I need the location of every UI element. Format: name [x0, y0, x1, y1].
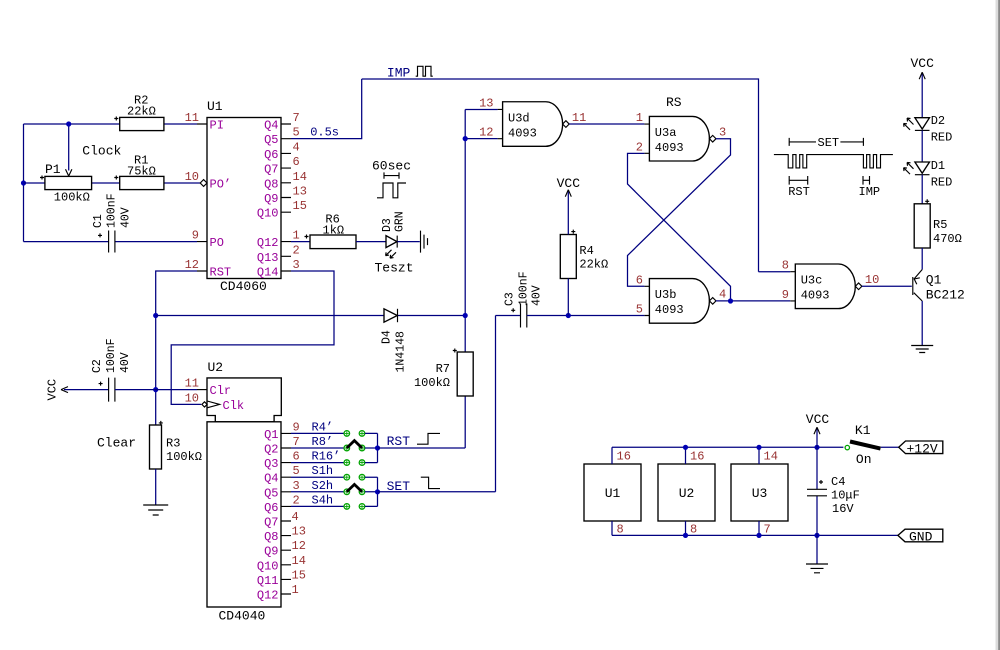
- svg-text:10: 10: [185, 391, 199, 405]
- wire R6 to D3: [356, 241, 386, 243]
- svg-text:U2: U2: [679, 486, 695, 501]
- svg-text:4093: 4093: [508, 127, 537, 141]
- svg-text:RST: RST: [387, 434, 411, 449]
- svg-text:2: 2: [293, 493, 300, 507]
- wire C1 row: [24, 241, 198, 243]
- IC U2 CD4040: [185, 360, 306, 624]
- svg-text:9: 9: [192, 229, 199, 243]
- wire RST to R7 bottom: [378, 447, 466, 449]
- wire left vertical bus: [23, 124, 25, 242]
- svg-text:Q12: Q12: [257, 236, 279, 250]
- jumper pads left column: [344, 431, 350, 510]
- svg-text:R16’: R16’: [312, 450, 341, 464]
- svg-text:12: 12: [479, 126, 493, 140]
- wire node vertical bus: [464, 109, 466, 448]
- svg-text:8: 8: [782, 259, 789, 273]
- resistor R4: [560, 230, 608, 279]
- svg-text:6: 6: [293, 450, 300, 464]
- glyph IMP pulses: [416, 66, 433, 76]
- svg-text:14: 14: [293, 170, 307, 184]
- svg-text:D1: D1: [931, 159, 945, 173]
- svg-text:U3d: U3d: [508, 112, 530, 126]
- capacitor C2: [91, 338, 132, 401]
- IC power U1: [584, 464, 641, 521]
- switch K1: [845, 423, 880, 467]
- node junctions top rail: [683, 445, 688, 450]
- capacitor C3: [504, 271, 544, 327]
- svg-text:15: 15: [293, 199, 307, 213]
- svg-text:2: 2: [636, 140, 643, 154]
- svg-text:C4: C4: [831, 475, 845, 489]
- svg-text:BC212: BC212: [926, 288, 965, 303]
- svg-text:U2: U2: [208, 360, 224, 375]
- wire top row to R2: [24, 123, 120, 125]
- svg-text:VCC: VCC: [46, 379, 60, 401]
- svg-text:1: 1: [292, 583, 299, 597]
- ground power: [806, 564, 828, 573]
- wire power stubs top: [612, 447, 759, 464]
- svg-text:Clr: Clr: [210, 384, 232, 398]
- node junction Clr row: [153, 387, 158, 392]
- wire Q5 output 0.5s: [291, 79, 362, 139]
- svg-text:0.5s: 0.5s: [310, 126, 339, 140]
- svg-text:R7: R7: [436, 362, 450, 376]
- svg-text:60sec: 60sec: [372, 159, 411, 174]
- glyph RST rising edge: [417, 433, 440, 444]
- svg-text:U1: U1: [207, 99, 223, 114]
- svg-text:100kΩ: 100kΩ: [54, 191, 90, 205]
- wire SET group vertical: [377, 477, 379, 506]
- wire GND rail bottom: [612, 534, 898, 536]
- svg-text:15: 15: [292, 568, 306, 582]
- svg-text:U3a: U3a: [655, 126, 677, 140]
- svg-text:5: 5: [293, 464, 300, 478]
- svg-text:11: 11: [185, 377, 199, 391]
- svg-text:Q7: Q7: [264, 163, 278, 177]
- svg-text:9: 9: [293, 420, 300, 434]
- svg-text:22kΩ: 22kΩ: [579, 258, 608, 272]
- svg-text:U3b: U3b: [655, 288, 677, 302]
- wire D1 to R5: [921, 175, 923, 204]
- svg-text:Q10: Q10: [257, 559, 279, 573]
- svg-text:Q14: Q14: [257, 266, 279, 280]
- NAND gate U3a: [636, 111, 726, 161]
- arrowhead P1 wiper: [66, 169, 72, 176]
- svg-text:40V: 40V: [119, 207, 132, 228]
- wire Q3 jumper row: [291, 462, 344, 464]
- svg-text:100nF: 100nF: [517, 271, 530, 306]
- svg-text:7: 7: [764, 523, 771, 537]
- svg-text:CD4060: CD4060: [220, 279, 267, 294]
- wire U3b output to U3c pin9: [716, 300, 790, 302]
- svg-text:14: 14: [764, 450, 778, 464]
- svg-text:P1: P1: [45, 162, 61, 177]
- svg-text:Teszt: Teszt: [375, 261, 414, 276]
- svg-text:PO: PO: [210, 236, 224, 250]
- node junction R4 bottom: [566, 313, 571, 318]
- svg-text:12: 12: [292, 539, 306, 553]
- svg-text:IMP: IMP: [387, 66, 411, 81]
- resistor R6: [305, 213, 357, 249]
- svg-text:7: 7: [293, 435, 300, 449]
- svg-text:C3: C3: [504, 292, 517, 306]
- wire D3 to ground: [397, 241, 419, 243]
- svg-text:4093: 4093: [655, 141, 684, 155]
- svg-text:U3c: U3c: [801, 274, 823, 288]
- wire U3d output to U3a pin1: [569, 123, 644, 125]
- svg-text:40V: 40V: [531, 285, 544, 306]
- svg-text:R4: R4: [579, 244, 593, 258]
- pin stubs U2 right: [281, 433, 291, 594]
- wire D4 to node: [398, 315, 466, 317]
- svg-text:8: 8: [617, 523, 624, 537]
- svg-text:4: 4: [293, 140, 300, 154]
- svg-text:SET: SET: [387, 479, 411, 494]
- wire bus to P1: [24, 182, 45, 184]
- svg-text:S4h: S4h: [312, 493, 334, 507]
- svg-text:Q3: Q3: [264, 457, 278, 471]
- svg-text:10: 10: [865, 273, 879, 287]
- LED D3 green: [381, 211, 407, 258]
- svg-text:4: 4: [719, 288, 726, 302]
- svg-text:1kΩ: 1kΩ: [323, 224, 345, 238]
- wire R2 to U1 pin 11: [164, 123, 197, 125]
- node junction left bus at P1: [21, 180, 26, 185]
- svg-text:D3: D3: [381, 218, 394, 232]
- svg-text:3: 3: [293, 258, 300, 272]
- svg-text:S2h: S2h: [312, 479, 334, 493]
- svg-text:16V: 16V: [832, 502, 854, 516]
- wire R3 to ground: [155, 469, 157, 505]
- VCC arrow mid: [565, 190, 571, 197]
- wire to U3c pin 8: [759, 271, 791, 273]
- svg-text:Q2: Q2: [264, 443, 278, 457]
- svg-text:R5: R5: [933, 218, 947, 232]
- svg-text:11: 11: [185, 111, 199, 125]
- wire IMP rail top: [362, 79, 759, 272]
- wire VCC arrow to C2: [64, 389, 109, 391]
- flag GND: [898, 529, 943, 545]
- svg-text:PI: PI: [210, 119, 224, 133]
- svg-text:RST: RST: [210, 266, 232, 280]
- svg-text:6: 6: [636, 273, 643, 287]
- svg-text:C2: C2: [91, 359, 104, 373]
- svg-text:Q5: Q5: [264, 133, 278, 147]
- svg-text:RS: RS: [666, 95, 682, 110]
- svg-text:470Ω: 470Ω: [933, 232, 962, 246]
- VCC arrow left: [61, 387, 68, 393]
- svg-text:U1: U1: [605, 486, 621, 501]
- node junction RST: [375, 445, 380, 450]
- IC power U2: [658, 464, 715, 521]
- svg-text:9: 9: [782, 288, 789, 302]
- svg-text:VCC: VCC: [806, 412, 830, 427]
- wire Q1 collector to ground: [921, 301, 923, 345]
- glyph 60sec width bracket: [384, 172, 399, 178]
- svg-text:11: 11: [572, 111, 586, 125]
- wire R5 to Q1 emitter: [921, 248, 923, 270]
- transistor Q1 BC212: [913, 270, 965, 303]
- svg-text:Q13: Q13: [257, 251, 279, 265]
- svg-text:3: 3: [719, 126, 726, 140]
- svg-text:Q9: Q9: [264, 192, 278, 206]
- svg-text:13: 13: [479, 97, 493, 111]
- ground right of D3 (rotated): [421, 231, 428, 253]
- wire C2 to Clr: [115, 389, 197, 391]
- svg-text:Q12: Q12: [257, 589, 279, 603]
- svg-text:5: 5: [636, 303, 643, 317]
- svg-text:Q8: Q8: [264, 177, 278, 191]
- wire power stubs bottom: [612, 521, 759, 535]
- svg-text:7: 7: [293, 111, 300, 125]
- svg-text:5: 5: [293, 126, 300, 140]
- svg-text:C1: C1: [92, 214, 105, 228]
- IC power U3: [731, 464, 788, 521]
- svg-text:Q8: Q8: [264, 530, 278, 544]
- svg-text:Q1: Q1: [264, 428, 278, 442]
- wire U3d inputs from node bus: [465, 109, 497, 138]
- svg-text:Q10: Q10: [257, 207, 279, 221]
- wire U3a output cross-couple to U3b pin6: [628, 139, 731, 287]
- svg-text:100kΩ: 100kΩ: [166, 450, 202, 464]
- svg-text:S1h: S1h: [312, 464, 334, 478]
- svg-text:10μF: 10μF: [831, 489, 860, 503]
- svg-text:R8’: R8’: [312, 435, 334, 449]
- NAND gate U3b: [636, 273, 726, 323]
- svg-text:3: 3: [293, 479, 300, 493]
- wire Q2 jumper row: [291, 447, 344, 449]
- wire C4 to ground: [816, 535, 818, 563]
- wire K1 to +12V flag: [881, 446, 899, 448]
- svg-text:PO’: PO’: [210, 177, 232, 191]
- node junction U3b output: [728, 298, 733, 303]
- wire U3a pin2 cross-couple to U3b output: [628, 153, 731, 301]
- window border right edge: [996, 0, 999, 650]
- flag +12V: [899, 441, 943, 457]
- svg-text:R3: R3: [166, 437, 180, 451]
- clock pin Clk symbol: [202, 401, 220, 408]
- svg-text:6: 6: [293, 155, 300, 169]
- svg-text:Q7: Q7: [264, 516, 278, 530]
- wire D4 row left: [156, 315, 384, 317]
- svg-text:16: 16: [690, 450, 704, 464]
- svg-text:4093: 4093: [655, 303, 684, 317]
- svg-text:1: 1: [636, 111, 643, 125]
- svg-text:GND: GND: [909, 530, 933, 545]
- svg-text:Clk: Clk: [223, 399, 245, 413]
- wire SET vertical from C3: [495, 316, 497, 492]
- potentiometer P1: [40, 162, 92, 205]
- diode D4: [380, 309, 407, 373]
- wire C3 to U3b pin5: [527, 315, 645, 317]
- svg-text:RED: RED: [931, 131, 953, 145]
- svg-text:4093: 4093: [801, 289, 830, 303]
- svg-text:12: 12: [185, 258, 199, 272]
- resistor R5: [914, 199, 962, 248]
- LED D2: [904, 114, 953, 145]
- svg-text:100nF: 100nF: [106, 193, 119, 228]
- wire R4 bottom: [567, 279, 569, 316]
- resistor R1: [114, 154, 164, 190]
- wire C3 left: [496, 315, 521, 317]
- svg-text:100kΩ: 100kΩ: [414, 376, 450, 390]
- resistor R7: [414, 349, 473, 397]
- svg-text:10: 10: [185, 170, 199, 184]
- svg-text:8: 8: [690, 523, 697, 537]
- wire Q4 jumper row: [291, 476, 344, 478]
- svg-text:U3: U3: [752, 486, 768, 501]
- svg-text:D4: D4: [380, 330, 393, 344]
- wire R4 top to VCC: [567, 191, 569, 235]
- svg-text:RST: RST: [788, 185, 810, 199]
- node junctions bottom rail: [683, 533, 688, 538]
- node junction D4 row: [463, 313, 468, 318]
- svg-text:Q4: Q4: [264, 119, 278, 133]
- svg-text:16: 16: [617, 450, 631, 464]
- svg-text:IMP: IMP: [859, 185, 881, 199]
- capacitor C4: [807, 447, 860, 535]
- svg-text:2: 2: [293, 243, 300, 257]
- resistor R3: [150, 421, 203, 469]
- svg-text:Q4: Q4: [264, 472, 278, 486]
- wire P1 wiper drop: [68, 124, 70, 171]
- wire P1 to R1: [92, 182, 120, 184]
- svg-text:D2: D2: [931, 114, 945, 128]
- svg-text:40V: 40V: [119, 352, 132, 373]
- pin stubs U1 left: [197, 124, 207, 271]
- node junction SET: [375, 489, 380, 494]
- svg-text:On: On: [856, 452, 872, 467]
- svg-text:K1: K1: [855, 423, 871, 438]
- svg-text:100nF: 100nF: [105, 338, 118, 373]
- wire VCC to D2: [921, 74, 923, 118]
- wire Q14 to CLK route: [171, 271, 334, 404]
- wire Q12 to R6: [291, 241, 310, 243]
- svg-text:1: 1: [293, 229, 300, 243]
- svg-text:14: 14: [292, 554, 306, 568]
- wire pads to vertical connector rows 1-6: [365, 433, 378, 506]
- jumper pads right column: [359, 431, 365, 510]
- wire D2 to D1: [921, 130, 923, 162]
- svg-text:Q5: Q5: [264, 486, 278, 500]
- svg-text:CD4040: CD4040: [219, 609, 266, 624]
- pin stub Clr: [197, 389, 207, 391]
- svg-text:Q11: Q11: [257, 574, 279, 588]
- svg-text:Q6: Q6: [264, 148, 278, 162]
- svg-text:22kΩ: 22kΩ: [127, 105, 156, 119]
- svg-text:R4’: R4’: [312, 420, 334, 434]
- ground below R3: [143, 505, 168, 515]
- capacitor C1: [92, 193, 132, 252]
- node junction pin12: [463, 136, 468, 141]
- svg-text:Q1: Q1: [926, 273, 942, 288]
- jumper link S2h: [347, 484, 362, 491]
- wire U3c output to Q1 base: [862, 285, 912, 287]
- LED D1: [904, 159, 953, 190]
- glyph 60sec pulse: [377, 183, 406, 198]
- svg-text:Q9: Q9: [264, 545, 278, 559]
- svg-text:RED: RED: [931, 176, 953, 190]
- svg-text:Clear: Clear: [97, 436, 136, 451]
- wire Q5 jumper row: [291, 491, 344, 493]
- VCC arrow top right: [919, 72, 925, 79]
- inverted pin PO' diamond: [200, 180, 207, 187]
- svg-text:13: 13: [292, 525, 306, 539]
- svg-text:+12V: +12V: [907, 442, 938, 457]
- jumper link R8': [347, 441, 362, 448]
- svg-text:13: 13: [293, 185, 307, 199]
- wire VCC rail top: [612, 446, 843, 448]
- ground below Q1: [911, 346, 933, 353]
- glyph SET falling edge: [421, 477, 440, 488]
- node junction RST/D4 row: [153, 313, 158, 318]
- wire Q1 jumper row: [291, 432, 344, 434]
- svg-text:SET: SET: [818, 136, 840, 150]
- wire RST group vertical: [377, 433, 379, 462]
- svg-text:1N4148: 1N4148: [394, 331, 407, 373]
- svg-text:VCC: VCC: [557, 176, 581, 191]
- resistor R2: [114, 94, 164, 131]
- svg-text:GRN: GRN: [394, 211, 407, 232]
- wire SET to C3: [378, 491, 496, 493]
- svg-text:4: 4: [292, 510, 299, 524]
- svg-text:Clock: Clock: [82, 144, 121, 159]
- svg-text:Q6: Q6: [264, 501, 278, 515]
- NAND gate U3c: [782, 259, 880, 309]
- svg-text:VCC: VCC: [910, 56, 934, 71]
- wire R1 to U1 pin 10: [164, 182, 200, 184]
- node junction at R2/P1: [66, 121, 71, 126]
- wire Q6 jumper row: [291, 505, 344, 507]
- IC U1 CD4060: [185, 99, 307, 294]
- svg-text:75kΩ: 75kΩ: [127, 165, 156, 179]
- NAND gate U3d: [479, 97, 586, 147]
- wire U1 RST to left bus: [156, 271, 197, 425]
- pin stubs U1 right: [281, 124, 291, 271]
- timing diagram SET/RST/IMP: [774, 138, 893, 185]
